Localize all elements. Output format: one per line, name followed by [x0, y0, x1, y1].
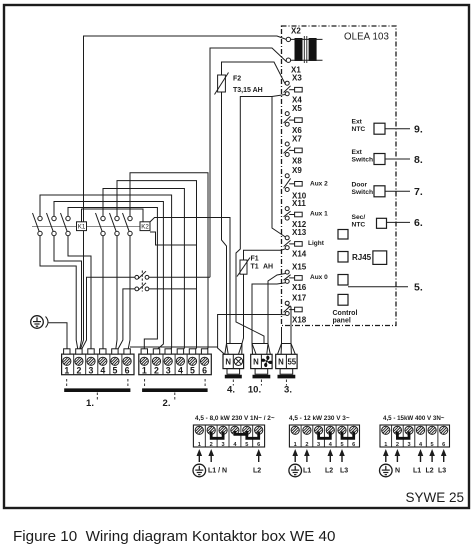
svg-text:X5: X5 [292, 104, 302, 113]
contactor contact pole x=54 [47, 213, 57, 236]
svg-text:X8: X8 [292, 156, 302, 165]
jumper bridge 5-6 [342, 432, 354, 439]
wire K1 pole c1 top to block2 s3 [40, 195, 172, 352]
clamp terminal 2.4 [177, 349, 183, 354]
svg-text:Figure 10 Wiring diagram Kont: Figure 10 Wiring diagram Kontaktor box W… [13, 528, 335, 545]
contact pair X5/X6 [284, 112, 303, 127]
wire X1 to switch pole1 [210, 48, 286, 277]
wire switch pole1 left to block1 s2 [80, 277, 135, 352]
svg-text:N: N [395, 468, 400, 475]
svg-text:10.: 10. [248, 385, 261, 396]
svg-text:N: N [278, 358, 284, 367]
svg-text:SYWE 25: SYWE 25 [405, 490, 464, 505]
svg-text:4: 4 [178, 365, 183, 375]
OLEA 103 box [282, 26, 397, 326]
lamp symbol [234, 357, 242, 365]
contactor contact pole x=40 [33, 213, 43, 236]
terminal X1 [286, 58, 290, 62]
clamp terminal 1.2 [76, 349, 82, 354]
arrow terminal 2 [395, 449, 401, 462]
svg-text:L3: L3 [340, 468, 348, 475]
clamp terminal 2.2 [153, 349, 159, 354]
arrow terminal 6 [441, 449, 447, 462]
jumper bridge 3-4 [319, 432, 331, 439]
connector Sec/ NTC [377, 218, 387, 228]
wire X13 feeder [272, 97, 285, 238]
arrow terminal 1 [383, 449, 389, 462]
contact pair X7/X8 [284, 142, 303, 157]
svg-text:K2: K2 [141, 224, 149, 231]
wire K2 pole c6 top to block2 s6 [130, 173, 208, 352]
cable marker bar 1. [64, 388, 130, 392]
svg-text:2: 2 [210, 442, 213, 448]
svg-text:7.: 7. [414, 186, 423, 198]
svg-text:F2: F2 [233, 76, 241, 83]
svg-text:3: 3 [166, 365, 171, 375]
contact pair X3/X4 [284, 81, 303, 96]
wire K1 pole c2 top to block2 s2 [54, 202, 163, 353]
connector Ext NTC [374, 123, 385, 134]
svg-text:1: 1 [384, 442, 387, 448]
svg-text:6: 6 [257, 442, 260, 448]
wire F2 to lamp funnel [222, 92, 227, 344]
svg-text:NTC: NTC [352, 221, 366, 228]
svg-text:3: 3 [222, 442, 225, 448]
svg-text:N: N [253, 358, 259, 367]
wire funnel above fan output [252, 344, 270, 355]
contact pair X11/X12 [284, 207, 303, 221]
arrow terminal 2 [208, 449, 214, 462]
svg-text:Ext: Ext [352, 119, 363, 126]
jumper bridge 2-3 [397, 432, 409, 439]
svg-text:1: 1 [294, 442, 297, 448]
svg-text:1: 1 [198, 442, 201, 448]
svg-text:L2: L2 [426, 468, 434, 475]
svg-text:X9: X9 [292, 166, 302, 175]
connector Ext Switch [374, 154, 385, 165]
svg-text:N: N [225, 358, 231, 367]
svg-text:6: 6 [352, 442, 355, 448]
svg-text:4,5 - 15kW 400 V 3N~: 4,5 - 15kW 400 V 3N~ [383, 415, 445, 422]
wire K1 pole c1 bottom to block1 s2 [40, 236, 78, 352]
lamp output box [223, 354, 244, 374]
svg-text:Control: Control [333, 310, 358, 317]
cable marker bar 4. [225, 375, 242, 379]
wire 55 control wire [130, 346, 218, 348]
wire K2 pole c5 top to block2 s5 [117, 181, 197, 352]
contact pair X15/X16 [284, 270, 303, 283]
svg-text:Door: Door [352, 181, 368, 188]
svg-text:AH: AH [263, 264, 273, 271]
clamp terminal 2.6 [201, 349, 207, 354]
contactor contact pole x=117 [110, 213, 120, 236]
wire to callout 5. [348, 286, 408, 288]
svg-text:4: 4 [100, 365, 105, 375]
wire K2 pole c5 bottom to block1 s5 [115, 236, 117, 352]
cable marker bar 3. [278, 375, 296, 379]
earth symbol [289, 464, 302, 477]
svg-text:Light: Light [308, 240, 325, 247]
svg-text:1: 1 [64, 365, 69, 375]
svg-text:5.: 5. [414, 282, 423, 294]
clamp terminal 1.1 [64, 349, 70, 354]
connector square control 2 [338, 294, 348, 305]
switch mechanical link [141, 271, 143, 292]
contact pair X17/X18 [284, 301, 303, 315]
svg-text:X15: X15 [292, 263, 307, 272]
svg-text:9.: 9. [414, 124, 423, 136]
terminal 55 output box [276, 354, 297, 374]
clamp terminal 2.3 [165, 349, 171, 354]
svg-text:3: 3 [317, 442, 320, 448]
svg-text:X11: X11 [292, 199, 306, 208]
svg-text:L2: L2 [325, 468, 333, 475]
svg-text:T3,15 AH: T3,15 AH [233, 87, 263, 94]
svg-text:6: 6 [125, 365, 130, 375]
svg-text:Aux 2: Aux 2 [310, 181, 328, 188]
clamp terminal 1.6 [124, 349, 130, 354]
svg-text:L3: L3 [438, 468, 446, 475]
svg-text:K1: K1 [78, 224, 86, 231]
svg-text:L1 / N: L1 / N [208, 468, 227, 475]
clamp terminal 1.5 [112, 349, 118, 354]
earth symbol [380, 464, 393, 477]
connector RJ45 [373, 251, 387, 265]
protective earth symbol [31, 316, 48, 329]
svg-text:6: 6 [442, 442, 445, 448]
connector square control 1 [338, 275, 348, 286]
svg-text:5: 5 [112, 365, 117, 375]
svg-text:4,5 - 8,0 kW 230 V 1N~ / 2~: 4,5 - 8,0 kW 230 V 1N~ / 2~ [195, 415, 275, 422]
svg-text:X2: X2 [291, 27, 301, 36]
fuse F1 [237, 258, 250, 277]
manual switch S1 pole 2 [135, 287, 139, 291]
wire K2 coil bottom to block2 s5 [150, 232, 197, 245]
clamp terminal 2.1 [141, 349, 147, 354]
wire K2 pole c4 top to block2 s4 [103, 189, 184, 353]
fuse F2 [215, 73, 229, 95]
svg-text:3.: 3. [284, 385, 292, 396]
svg-text:6: 6 [202, 365, 207, 375]
arrow terminal 4 [418, 449, 424, 462]
svg-text:RJ45: RJ45 [352, 253, 372, 262]
svg-text:L1: L1 [413, 468, 421, 475]
contactor contact pole x=68 [61, 213, 71, 236]
wire funnel above lamp output [225, 344, 242, 355]
wire X4 to fan funnel [236, 95, 285, 344]
svg-text:1.: 1. [86, 398, 94, 409]
svg-text:X3: X3 [292, 74, 302, 83]
svg-text:1: 1 [142, 365, 147, 375]
svg-text:X13: X13 [292, 228, 307, 237]
contactor coil K1 [77, 222, 87, 231]
wire X16 to fan neutral [252, 283, 285, 344]
wire K2 pole c4 bottom to block1 s4 [102, 236, 104, 352]
svg-text:3: 3 [407, 442, 410, 448]
terminal X2 [286, 37, 290, 41]
contact pair X9/X10 [284, 174, 303, 192]
jumper bridge 4-5 [235, 431, 247, 434]
wire to callout 6. [387, 221, 411, 223]
clamp terminal 2.5 [189, 349, 195, 354]
manual switch S1 pole 1 [135, 271, 149, 292]
jumper bridge 5-6 [247, 432, 259, 439]
svg-text:Ext: Ext [352, 149, 363, 156]
contactor contact pole x=103 [96, 213, 106, 236]
connector square row X13 [338, 230, 348, 240]
clamp terminal 1.3 [88, 349, 94, 354]
svg-text:X7: X7 [292, 134, 302, 143]
svg-text:Aux 0: Aux 0 [310, 274, 328, 281]
wire X15 to fan live [268, 274, 285, 344]
svg-text:2: 2 [396, 442, 399, 448]
wire K1 pole c3 bottom to block1 s3 [68, 236, 91, 352]
wire K2 pole c6 bottom to block1 s6 [128, 236, 130, 352]
svg-text:6.: 6. [414, 217, 423, 229]
arrow terminal 4 [328, 449, 334, 462]
wire fuse F1 to lamp [242, 274, 244, 343]
arrow terminal 2 [304, 449, 310, 462]
svg-text:X18: X18 [292, 315, 307, 324]
transformer T primary/secondary windings [291, 36, 323, 63]
arrow terminal 6 [256, 449, 262, 462]
wire to callout 9. [385, 128, 410, 130]
svg-text:X14: X14 [292, 249, 307, 258]
svg-text:T1: T1 [251, 264, 259, 271]
wire X14 to fuse F1 [244, 249, 286, 260]
wire X3 via F2 (upper) [222, 62, 286, 84]
svg-text:L2: L2 [253, 468, 261, 475]
svg-text:NTC: NTC [352, 126, 366, 133]
svg-text:panel: panel [333, 318, 351, 325]
contactor contact pole x=130 [123, 213, 133, 236]
arrow terminal 1 [292, 449, 298, 462]
terminal block 1 [62, 354, 134, 375]
wire K2 coil top to lamp neutral [150, 218, 230, 344]
connector Door Switch [374, 186, 385, 197]
wire switch pole2 left to block1 s5 [116, 289, 134, 352]
svg-text:F1: F1 [251, 256, 259, 263]
svg-text:X16: X16 [292, 283, 307, 292]
wire switch pole2 right to block2 s6 [149, 288, 197, 290]
svg-text:3: 3 [89, 365, 94, 375]
svg-text:5: 5 [431, 442, 434, 448]
svg-text:4,5 - 12 kW 230 V 3~: 4,5 - 12 kW 230 V 3~ [289, 415, 350, 422]
wire stub to 55 box neutral [281, 327, 283, 344]
wire switch pole1 right to X1 drop [149, 276, 210, 278]
fan symbol [259, 354, 274, 369]
wire K1 pole c3 top to block2 s1 [68, 208, 157, 353]
svg-text:2: 2 [305, 442, 308, 448]
wire funnel above terminal 55 output [278, 344, 296, 355]
svg-text:2: 2 [154, 365, 159, 375]
svg-text:Switch: Switch [352, 189, 374, 196]
cable marker bar 2. [142, 388, 208, 392]
svg-text:8.: 8. [414, 154, 423, 166]
contactor actuation linkage [32, 226, 141, 228]
terminal block 2 [139, 354, 212, 375]
svg-text:5: 5 [245, 442, 248, 448]
svg-text:5: 5 [340, 442, 343, 448]
earth symbol [193, 464, 206, 477]
jumper bridge 2-3 [211, 432, 223, 439]
fan output box [251, 354, 272, 374]
wire X17 to terminal 55 [285, 305, 291, 344]
svg-text:OLEA 103: OLEA 103 [344, 32, 389, 43]
wire earth to block1 s1 [49, 323, 68, 352]
contact pair X13/X14 [284, 236, 303, 250]
clamp terminal 1.4 [100, 349, 106, 354]
wire to callout 8. [385, 158, 410, 160]
arrow terminal 5 [339, 449, 345, 462]
cable marker bar 10. [253, 375, 271, 379]
wire K1 pole c2 bottom to block1 s2 [54, 236, 82, 352]
svg-text:L1: L1 [303, 468, 311, 475]
svg-text:Switch: Switch [352, 157, 374, 164]
arrow terminal 1 [197, 449, 203, 462]
wire X2 feed / left trunk [80, 36, 287, 352]
svg-text:55: 55 [287, 358, 296, 367]
svg-text:Sec/: Sec/ [352, 214, 366, 221]
svg-text:4.: 4. [227, 385, 235, 396]
connector square row RJ45 [338, 252, 348, 263]
svg-text:5: 5 [190, 365, 195, 375]
svg-text:Aux 1: Aux 1 [310, 211, 328, 218]
svg-text:2: 2 [76, 365, 81, 375]
wire K1 coil to K2 link [82, 209, 144, 222]
wire to callout 7. [385, 190, 410, 192]
wire X18 to terminal 55 N [218, 315, 286, 355]
arrow terminal 5 [429, 449, 435, 462]
svg-text:2.: 2. [163, 398, 171, 409]
svg-text:X17: X17 [292, 294, 307, 303]
contactor coil K2 [140, 222, 150, 231]
